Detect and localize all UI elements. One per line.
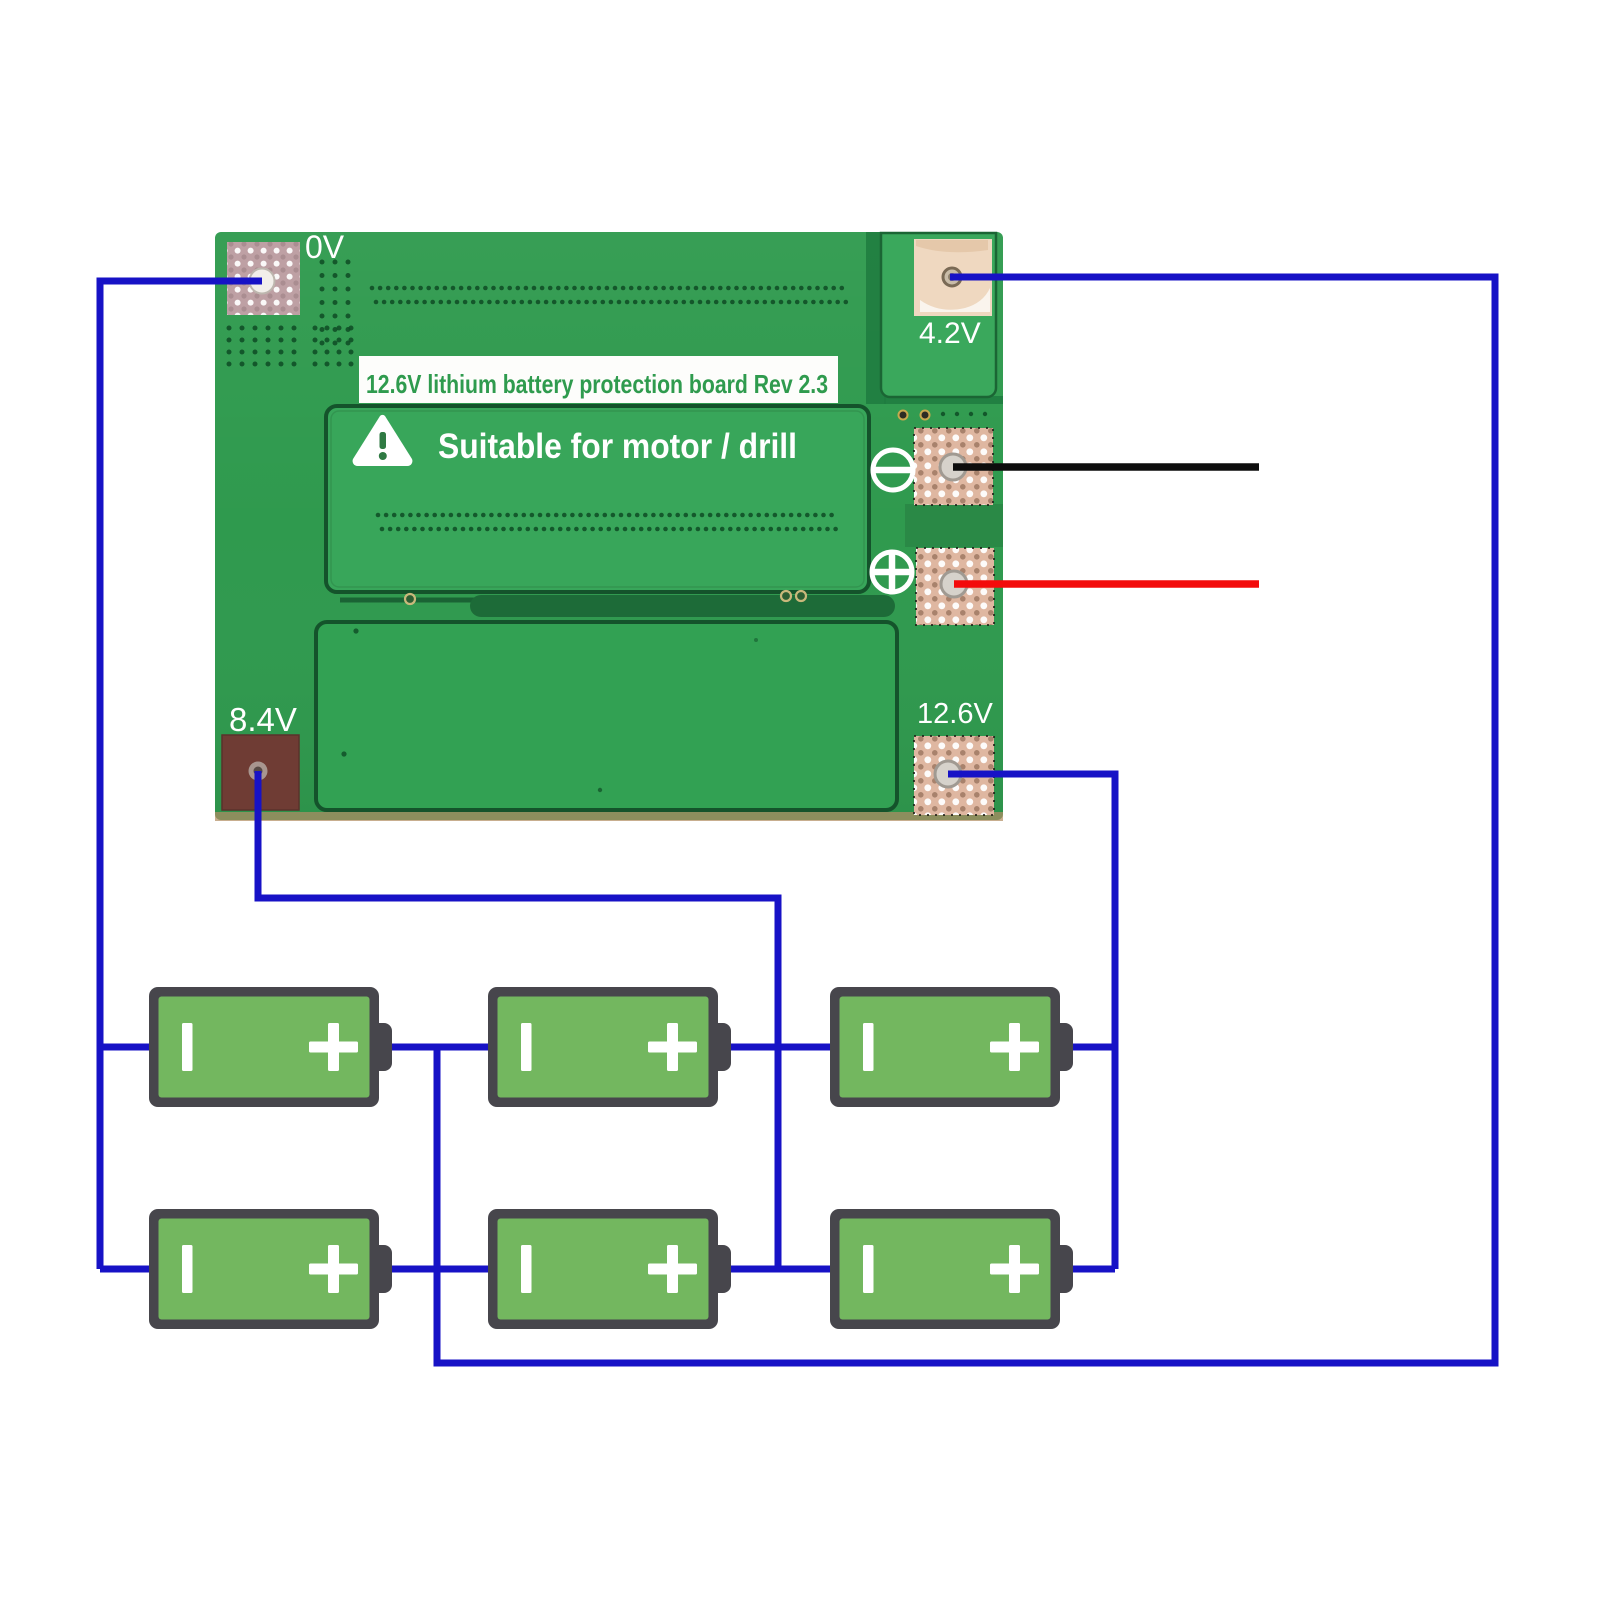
svg-text:12.6V lithium battery protecti: 12.6V lithium battery protection board R… <box>366 369 828 399</box>
PCB board 12.6V lithium battery protection board <box>215 232 1003 821</box>
wire P+ red lead <box>954 580 1259 588</box>
routing slot <box>340 591 895 617</box>
symbol P- (circle minus) <box>873 450 913 490</box>
via row above B- pad <box>899 411 988 420</box>
pad B- (P-) <box>914 428 993 505</box>
wire net 0V: pad 0V to cells C1-/C4- <box>100 281 262 1269</box>
via grid C below 0V pad right <box>313 326 354 367</box>
via grid B below 0V pad <box>227 326 297 367</box>
sub-board 4.2V terminal section <box>881 233 996 397</box>
pad 12.6V (B+) <box>914 736 994 815</box>
svg-text:0V: 0V <box>305 229 345 265</box>
svg-text:4.2V: 4.2V <box>919 317 981 350</box>
svg-text:Suitable for motor / drill: Suitable for motor / drill <box>438 427 797 466</box>
via grid A right of 0V pad <box>320 260 351 346</box>
svg-text:12.6V: 12.6V <box>917 698 993 730</box>
groove right column separator <box>866 232 1003 404</box>
wire row1 C2+ to C3- <box>730 1044 831 1051</box>
wire row2 C5+ to C6- <box>730 1266 831 1273</box>
wire net 8.4V: pad 8.4V down-right-down to junction row wires <box>258 771 778 1269</box>
wire row2 C6+ to 12.6V net <box>1072 1266 1115 1273</box>
wire P- black lead <box>953 463 1259 471</box>
dark copper-free band right edge <box>905 504 1003 547</box>
white sticker: 12.6V lithium battery protection board Rev 2.3 <box>359 356 838 403</box>
wire row1 C1+ to C2- <box>391 1044 489 1051</box>
pad 4.2V <box>914 239 992 316</box>
warning triangle icon <box>353 415 413 466</box>
wire net 12.6V: pad 12.6V right-down to cells C3+/C6+ <box>948 774 1115 1269</box>
pad 8.4V <box>222 735 299 810</box>
battery cell C2 <box>488 987 731 1107</box>
pad 0V (B-) top-left <box>227 242 300 315</box>
raised panel: bottom section <box>316 622 897 810</box>
wire row2 C4+ to C5- <box>391 1266 489 1273</box>
raised panel: suitable for motor/drill <box>326 406 869 592</box>
battery cell C4 <box>149 1209 392 1329</box>
pad P+ <box>916 548 994 625</box>
battery cell C1 <box>149 987 392 1107</box>
wire net 4.2V: pad 4.2V right-down-bottom-up to junction row wires <box>437 277 1495 1363</box>
battery cell C6 <box>830 1209 1073 1329</box>
symbol P+ (circle plus) <box>872 552 912 592</box>
wire row1 C3+ to 12.6V net <box>1072 1044 1115 1051</box>
via strip top <box>370 286 848 305</box>
battery cell C3 <box>830 987 1073 1107</box>
battery cell C5 <box>488 1209 731 1329</box>
via strip middle <box>376 513 838 532</box>
svg-text:8.4V: 8.4V <box>229 701 297 738</box>
